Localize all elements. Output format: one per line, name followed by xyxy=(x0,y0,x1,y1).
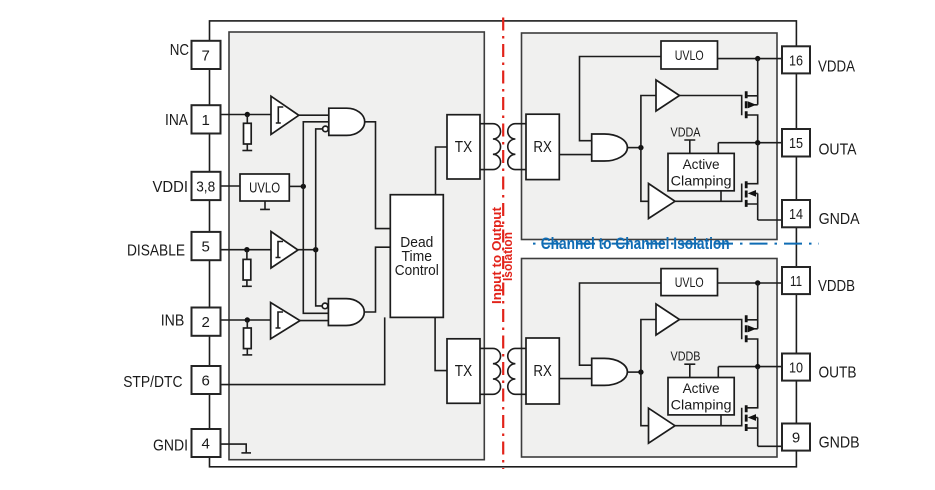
VDDA supply stub xyxy=(684,140,695,153)
wire INB from pin 2 to buffer xyxy=(221,319,271,321)
RX2 box xyxy=(526,338,559,404)
wire clamp B to gate line xyxy=(720,415,722,426)
wire RX1 to AND gate G3 xyxy=(559,154,591,156)
transistor Q4 (low side MOSFET) xyxy=(745,405,748,431)
bubble (G1 DISABLE input) xyxy=(323,126,329,132)
transformer T2 secondary winding xyxy=(508,348,526,394)
channel B block xyxy=(522,259,778,458)
VDDB supply stub xyxy=(684,364,695,377)
svg-text:Clamping: Clamping xyxy=(671,173,732,189)
wire U5 to Q2 gate xyxy=(675,184,742,202)
AND gate G4 (channel B) xyxy=(592,358,628,385)
transistor Q1 (high side MOSFET) xyxy=(745,91,748,118)
wire U4 to Q1 gate xyxy=(680,96,742,116)
svg-text:Active: Active xyxy=(683,380,720,396)
wire dead time control to TX2 xyxy=(435,317,447,370)
wire GNDB to pin 9 xyxy=(758,445,782,447)
pin 16 box xyxy=(782,46,810,73)
svg-text:11: 11 xyxy=(790,273,802,290)
node INA junction xyxy=(245,112,250,117)
buffer U5 (channel A low side) xyxy=(649,184,676,219)
buffer U4 (channel A high side) xyxy=(656,80,680,111)
wire UVLO-B to AND gate G4 xyxy=(580,283,662,365)
UVLO input-side box xyxy=(221,185,241,187)
node VDDB junction xyxy=(755,280,760,285)
svg-text:STP/DTC: STP/DTC xyxy=(123,374,182,391)
pin 15 box xyxy=(782,129,810,157)
svg-text:5: 5 xyxy=(202,239,210,256)
wire buffer U3 to AND gate xyxy=(300,320,328,322)
svg-text:VDDA: VDDA xyxy=(671,124,701,139)
svg-text:INB: INB xyxy=(161,312,185,329)
node OUTB junction xyxy=(755,364,760,369)
wire G2 output to dead time control xyxy=(364,247,391,312)
svg-text:TX: TX xyxy=(455,139,473,156)
svg-text:9: 9 xyxy=(792,430,800,447)
svg-text:7: 7 xyxy=(202,47,210,64)
pin 6 box xyxy=(192,366,221,394)
svg-text:15: 15 xyxy=(789,135,803,152)
transformer T2 primary winding xyxy=(480,348,501,394)
svg-text:Control: Control xyxy=(395,262,439,279)
buffer U3 (INB Schmitt) xyxy=(271,303,300,339)
pin 9 box xyxy=(782,424,810,451)
svg-text:VDDA: VDDA xyxy=(818,58,856,75)
package outline xyxy=(210,21,797,467)
label Input to Output Isolation xyxy=(489,206,515,304)
wire dead time control to TX1 xyxy=(436,147,448,195)
svg-text:4: 4 xyxy=(202,436,210,453)
svg-text:OUTA: OUTA xyxy=(819,142,858,159)
pin 1 box xyxy=(192,105,221,133)
wire buffer U2 to disable rail xyxy=(298,249,316,251)
UVLO channel A box xyxy=(661,41,718,69)
input to output isolation line xyxy=(502,18,504,470)
pin 3,8 box xyxy=(192,172,221,200)
active clamping A box xyxy=(668,153,734,190)
UVLO channel B box xyxy=(661,269,718,296)
pin 11 box xyxy=(782,267,810,294)
svg-text:10: 10 xyxy=(789,360,803,377)
node disable rail junction xyxy=(313,247,318,252)
svg-text:NC: NC xyxy=(170,42,189,59)
svg-text:UVLO: UVLO xyxy=(249,179,280,196)
node DISABLE junction xyxy=(244,247,249,252)
node UVLO rail junction xyxy=(301,184,306,189)
node VDDA junction xyxy=(755,56,760,61)
wire RX2 to AND gate G4 xyxy=(559,378,591,380)
resistor R2 (DISABLE pulldown) xyxy=(246,250,248,287)
buffer U7 (channel B low side) xyxy=(649,408,676,443)
wire G1 output to dead time control xyxy=(364,122,390,229)
transformer T1 secondary winding xyxy=(508,124,526,170)
ground (R3) xyxy=(242,354,252,356)
pin 7 box xyxy=(192,41,221,69)
svg-text:14: 14 xyxy=(789,206,803,223)
input-side block xyxy=(229,32,484,460)
svg-text:TX: TX xyxy=(455,363,473,380)
resistor R3 (INB pulldown) xyxy=(246,320,248,355)
TX2 box xyxy=(447,339,480,404)
transistor Q3 (high side MOSFET) xyxy=(745,315,748,342)
svg-text:Active: Active xyxy=(683,156,720,172)
wire buffer U1 to AND gate xyxy=(299,114,329,116)
dead time control box xyxy=(390,195,443,318)
wire GNDA to pin 14 xyxy=(758,219,782,221)
AND gate G2 (channel B input) xyxy=(328,299,364,326)
svg-text:2: 2 xyxy=(202,314,210,331)
node INB junction xyxy=(245,317,250,322)
resistor R1 (INA pulldown) xyxy=(246,115,248,151)
transformer T1 primary winding xyxy=(480,124,501,170)
svg-text:OUTB: OUTB xyxy=(819,365,857,382)
wire OUTA line to pin 15 xyxy=(718,143,782,154)
wire clamp A to gate line xyxy=(720,191,722,202)
AND gate G3 (channel A) xyxy=(592,134,628,161)
channel to channel isolation line xyxy=(533,243,819,245)
svg-text:VDDB: VDDB xyxy=(818,278,855,295)
svg-text:Channel to Channel Isolation: Channel to Channel Isolation xyxy=(541,234,730,253)
wire OUTB line to pin 10 xyxy=(718,367,782,378)
active clamping B box xyxy=(668,378,734,415)
wire UVLO-A to VDDA pin 16 xyxy=(718,58,783,60)
svg-text:VDDB: VDDB xyxy=(671,349,701,364)
ground (R2) xyxy=(242,285,252,287)
wire UVLO rail xyxy=(303,122,329,313)
svg-text:Clamping: Clamping xyxy=(671,397,732,413)
channel A block xyxy=(522,33,778,240)
buffer U1 (INA Schmitt) xyxy=(271,96,299,134)
wire STP/DTC from pin 6 to dead time control xyxy=(221,317,385,384)
pin 14 box xyxy=(782,200,810,227)
wire INA from pin 1 to buffer xyxy=(221,114,272,116)
svg-text:RX: RX xyxy=(533,139,552,156)
wire G4 output node xyxy=(627,371,641,373)
wire UVLO-B to VDDB pin 11 xyxy=(718,282,783,284)
svg-text:RX: RX xyxy=(533,363,552,380)
bubble (G2 DISABLE input) xyxy=(322,303,328,309)
wire disable rail xyxy=(316,129,323,306)
pin 2 box xyxy=(192,308,221,336)
svg-text:1: 1 xyxy=(202,112,210,129)
svg-text:UVLO: UVLO xyxy=(675,274,704,290)
svg-text:Isolation: Isolation xyxy=(500,232,515,281)
wire U6 to Q3 gate xyxy=(680,320,742,340)
pin 5 box xyxy=(192,232,221,260)
svg-text:16: 16 xyxy=(789,52,803,69)
wire U7 to Q4 gate xyxy=(675,408,742,426)
wire UVLO to rail xyxy=(289,185,303,187)
ground (GNDI) xyxy=(241,452,251,454)
wire DISABLE from pin 5 to buffer xyxy=(221,249,272,251)
svg-text:6: 6 xyxy=(202,373,210,390)
RX1 box xyxy=(526,114,559,179)
TX1 box xyxy=(447,115,480,179)
wire G3 output node xyxy=(627,147,641,149)
ground (UVLO) xyxy=(260,201,270,209)
wire G3 to output buffers xyxy=(641,96,656,202)
wire UVLO-A to AND gate G3 xyxy=(580,57,662,141)
svg-text:UVLO: UVLO xyxy=(675,47,704,63)
pin 10 box xyxy=(782,354,810,381)
svg-text:INA: INA xyxy=(165,112,189,129)
buffer U6 (channel B high side) xyxy=(656,304,680,335)
svg-text:VDDI: VDDI xyxy=(153,179,189,196)
svg-text:GNDA: GNDA xyxy=(819,211,861,228)
buffer U2 (DISABLE Schmitt) xyxy=(271,232,298,269)
ground (R1) xyxy=(242,150,252,152)
svg-text:GNDB: GNDB xyxy=(819,435,860,452)
node OUTA junction xyxy=(755,140,760,145)
svg-text:3,8: 3,8 xyxy=(196,178,215,195)
AND gate G1 (channel A input) xyxy=(329,108,365,135)
transistor Q2 (low side MOSFET) xyxy=(745,181,748,207)
svg-text:GNDI: GNDI xyxy=(153,438,188,455)
wire G4 to output buffers xyxy=(641,320,656,426)
pin 4 box xyxy=(192,429,221,457)
wire GNDI from pin 4 xyxy=(221,444,247,453)
svg-text:DISABLE: DISABLE xyxy=(127,242,185,259)
